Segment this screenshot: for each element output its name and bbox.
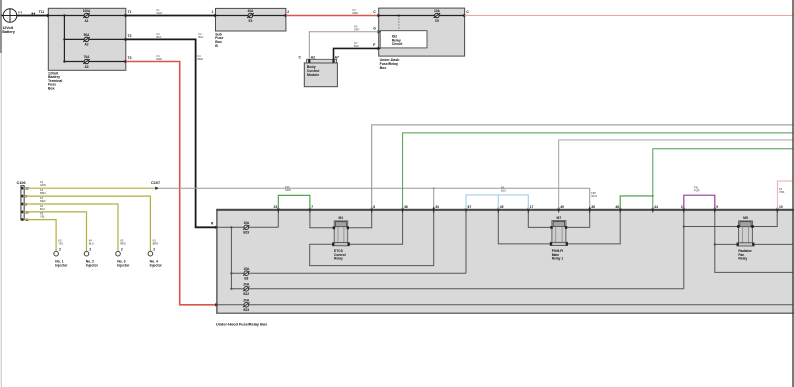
svg-text:Box: Box	[48, 87, 55, 91]
wire C106 pin9 to No.4 injector	[24, 188, 158, 251]
svg-text:15A: 15A	[243, 267, 250, 271]
wire terminal 33 to relay M1 switch	[310, 209, 434, 266]
svg-text:20A: 20A	[243, 282, 250, 286]
diagram left border	[0, 53, 2, 387]
wire row3 inside battery box	[64, 61, 125, 63]
wire B23 row across box	[216, 304, 793, 306]
node at terminal 33 drop	[433, 187, 435, 189]
terminal 2	[681, 205, 685, 212]
terminal 49	[557, 205, 564, 212]
svg-text:BLK: BLK	[199, 35, 204, 39]
wire gray terminal 8 to right edge	[372, 125, 793, 209]
svg-text:Injector: Injector	[55, 263, 68, 267]
wire row1 inside battery box	[48, 15, 126, 17]
Sub Fuse Box B	[215, 8, 286, 47]
svg-text:B23: B23	[243, 308, 249, 312]
terminal R under-hood left	[211, 222, 219, 229]
svg-text:70A: 70A	[84, 55, 91, 59]
svg-text:RED: RED	[120, 242, 126, 246]
svg-text:YEL: YEL	[58, 242, 63, 246]
wire relay M7 switch to terminal 46	[566, 209, 620, 244]
terminal 23	[274, 205, 280, 212]
svg-text:GRY: GRY	[354, 28, 360, 32]
under-hood box top edge	[216, 209, 794, 211]
wire relay M5 switch right out	[752, 243, 793, 245]
terminal red feed bottom left	[215, 303, 219, 306]
wire T2 down to under-hood box terminal R	[126, 32, 217, 227]
svg-text:BRN: BRN	[40, 191, 46, 195]
svg-text:G: G	[373, 27, 376, 31]
wire relay M7 coil to terminal 38	[566, 209, 590, 227]
svg-text:T3: T3	[128, 56, 132, 60]
wire C106 pin11 to No.1 injector	[24, 212, 64, 252]
node junction row1	[230, 226, 232, 228]
wire gray terminal 49 junction to right edge	[559, 140, 793, 209]
svg-text:F: F	[373, 43, 375, 47]
svg-text:WHT: WHT	[591, 194, 597, 198]
fuse B12 20A	[243, 282, 250, 296]
jumper blue terminals 67-45-17	[466, 185, 528, 209]
svg-text:30A: 30A	[247, 9, 254, 13]
svg-text:33: 33	[435, 205, 439, 209]
svg-text:Injector: Injector	[150, 263, 163, 267]
terminal 38	[588, 205, 595, 212]
svg-text:10: 10	[779, 205, 783, 209]
svg-text:M5: M5	[743, 216, 748, 220]
terminal 10	[776, 205, 783, 212]
svg-text:20A: 20A	[243, 298, 250, 302]
terminal 67	[465, 205, 472, 212]
wire relay M1 switch to terminal 36	[348, 209, 403, 244]
svg-text:45: 45	[500, 205, 504, 209]
svg-text:15A: 15A	[243, 221, 250, 225]
svg-text:YEL: YEL	[40, 215, 45, 219]
node battery box row1	[63, 14, 65, 16]
svg-text:E8: E8	[244, 276, 248, 280]
node junction rowE8	[230, 272, 232, 274]
svg-text:T1: T1	[128, 10, 132, 14]
terminal 9	[713, 205, 718, 212]
svg-text:23: 23	[274, 205, 278, 209]
terminal 1 sub fuse box left	[212, 10, 218, 17]
wire terminal 45 to relay M7 switch	[498, 209, 552, 244]
svg-text:Under-Hood Fuse/Relay Box: Under-Hood Fuse/Relay Box	[216, 322, 268, 326]
wire terminal 2 riser to relay M5 coil	[684, 226, 739, 228]
svg-text:PUR: PUR	[694, 188, 700, 192]
wire red sub fuse box to under-dash box	[286, 8, 379, 15]
No. 1 Injector	[54, 248, 68, 268]
svg-text:RED: RED	[157, 57, 163, 61]
terminal C under-dash left	[373, 10, 381, 17]
svg-text:100A: 100A	[83, 9, 91, 13]
svg-text:2: 2	[59, 248, 61, 252]
diagram right border	[792, 0, 794, 387]
terminal 8	[370, 205, 375, 212]
wire row2 inside battery box	[64, 38, 125, 40]
svg-text:Injector: Injector	[86, 263, 99, 267]
No. 4 Injector	[148, 248, 162, 268]
relay M5 Radiator Fan Relay	[737, 216, 755, 261]
relay M1 ETCS Control Relay	[332, 216, 349, 260]
svg-text:RED: RED	[353, 11, 359, 15]
svg-text:17: 17	[530, 205, 534, 209]
wire C106 pin10 to No.2 injector	[24, 204, 94, 252]
IG2 Relay Circuit box	[380, 31, 427, 48]
svg-text:2: 2	[287, 10, 289, 14]
svg-text:2: 2	[681, 205, 683, 209]
relay M7 PGM-FI Main Relay 1	[550, 216, 568, 260]
terminal 44	[651, 205, 658, 212]
wire R feed to fuse B19	[216, 226, 278, 228]
wire relay M1 coil to terminal 8	[348, 209, 372, 228]
svg-text:Relay: Relay	[738, 257, 747, 261]
svg-text:GRN: GRN	[40, 183, 46, 187]
terminal 46	[615, 205, 621, 212]
svg-text:36: 36	[404, 205, 408, 209]
battery 12Volt	[1, 9, 17, 34]
svg-text:A3: A3	[84, 65, 88, 69]
svg-text:BLK: BLK	[157, 35, 162, 39]
12Volt Battery Terminal Fuse Box	[48, 8, 126, 90]
svg-text:A1: A1	[84, 19, 88, 23]
wire BCM A7 to under-dash terminal F	[334, 41, 379, 59]
svg-text:C9: C9	[435, 19, 439, 23]
svg-text:A2: A2	[311, 56, 315, 60]
svg-text:67: 67	[468, 205, 472, 209]
wire junction vertical	[63, 16, 65, 62]
svg-text:(+): (+)	[18, 10, 22, 14]
wire pink terminal 10 to right edge	[777, 181, 793, 209]
wire T1 to Sub Fuse Box B	[126, 8, 216, 15]
wire gray C107 across to terminal 38	[158, 188, 598, 209]
wire fuse B19 up to terminal 23	[277, 209, 279, 227]
fuse E8 15A	[243, 267, 250, 281]
svg-text:Injector: Injector	[117, 263, 130, 267]
wire terminal 7 to relay M1 coil	[310, 209, 334, 228]
svg-text:2: 2	[153, 248, 155, 252]
svg-text:Box: Box	[380, 66, 387, 70]
fuse B23 20A	[243, 298, 250, 312]
svg-text:B19: B19	[243, 231, 249, 235]
terminal 2 sub fuse box right	[285, 10, 290, 17]
svg-text:M7: M7	[557, 216, 562, 220]
terminal T2	[125, 34, 132, 41]
svg-text:B12: B12	[243, 292, 249, 296]
fuse E3 30A	[247, 9, 254, 23]
terminal G under-dash left	[373, 27, 381, 34]
jumper green terminals 46-44	[620, 195, 654, 209]
wire internal junction vertical	[230, 227, 232, 288]
svg-text:38: 38	[591, 205, 595, 209]
svg-text:T2: T2	[128, 34, 132, 38]
svg-text:GRN: GRN	[285, 188, 291, 192]
svg-text:BLU: BLU	[40, 207, 45, 211]
wire BCM A2 to under-dash terminal G	[309, 25, 378, 60]
jumper purple terminals 2-9	[684, 185, 715, 209]
terminal 36	[401, 205, 408, 212]
svg-text:Relay: Relay	[334, 257, 343, 261]
terminal 45	[497, 205, 504, 212]
svg-text:Battery: Battery	[2, 30, 16, 34]
Under-Dash Fuse/Relay Box	[379, 8, 465, 70]
svg-text:BRN: BRN	[153, 242, 159, 246]
terminal T11 arrow	[47, 14, 51, 17]
fuse A2 50A	[83, 33, 90, 47]
node riser M5 coil	[683, 225, 685, 227]
wire inside under-dash box	[379, 15, 465, 17]
svg-text:M1: M1	[339, 216, 344, 220]
wire green terminal 36 to right edge	[403, 133, 793, 209]
fuse B19 15A	[243, 221, 250, 235]
wire E8 row to terminal 67	[231, 272, 466, 274]
wire relay M5 coil to terminal 10	[752, 209, 777, 227]
wire C106 pin12 to C107	[24, 180, 155, 188]
svg-text:A7: A7	[335, 56, 339, 60]
svg-text:1: 1	[212, 10, 214, 14]
svg-text:50A: 50A	[84, 33, 91, 37]
connector C106	[17, 181, 30, 222]
Under-Hood Fuse/Relay Box body	[216, 209, 794, 326]
terminal 33	[432, 205, 439, 212]
No. 2 Injector	[84, 248, 98, 268]
svg-text:RED: RED	[40, 199, 46, 203]
svg-text:PNK: PNK	[779, 190, 785, 194]
connector C107	[151, 181, 160, 190]
terminal T3	[125, 56, 132, 63]
jumper green terminals 23-7	[278, 185, 310, 209]
svg-text:A2: A2	[84, 43, 88, 47]
wire B12 row to relay M5 riser	[231, 288, 683, 290]
node battery box row2	[63, 38, 65, 40]
terminal 7	[309, 205, 314, 212]
wire terminal 9 down and out right	[715, 209, 793, 272]
svg-text:Circuit: Circuit	[392, 42, 404, 46]
wire riser terminal 2	[683, 209, 685, 289]
svg-text:2: 2	[89, 248, 91, 252]
svg-text:46: 46	[615, 205, 619, 209]
svg-text:2: 2	[121, 248, 123, 252]
svg-text:BLK: BLK	[354, 44, 359, 48]
fuse A3 70A	[83, 55, 90, 69]
node terminal 9 relay M5 switch	[714, 243, 716, 245]
wire drop to terminal 33	[433, 188, 435, 209]
wire battery to T11	[17, 10, 49, 16]
svg-text:Relay 1: Relay 1	[552, 257, 564, 261]
wire green terminal 44 to right edge	[653, 149, 793, 209]
svg-text:C106: C106	[17, 181, 26, 185]
fuse A1 100A	[83, 9, 91, 23]
wire red thin to right edge	[465, 15, 793, 17]
wire C106 pin8 to No.3 injector	[24, 196, 126, 252]
svg-text:49: 49	[560, 205, 564, 209]
svg-text:C107: C107	[151, 181, 160, 185]
svg-text:WHT: WHT	[157, 11, 163, 15]
svg-text:10A: 10A	[434, 9, 441, 13]
terminal F under-dash left	[373, 43, 381, 50]
terminal T1	[125, 10, 132, 17]
terminal 17	[527, 205, 534, 212]
svg-text:RED: RED	[198, 57, 204, 61]
Body Control Module	[299, 56, 340, 87]
svg-text:BLU: BLU	[89, 242, 94, 246]
svg-text:44: 44	[654, 205, 658, 209]
wire T3 red down to under-hood box bottom feed	[126, 54, 217, 305]
wire terminal 17 to relay M7 coil	[528, 209, 552, 227]
svg-text:8: 8	[373, 205, 375, 209]
fuse C9 10A	[434, 9, 441, 23]
svg-text:E3: E3	[248, 19, 252, 23]
svg-text:BLU: BLU	[501, 188, 506, 192]
dashed link IG2 circuit to fuse wire	[398, 15, 400, 31]
svg-text:Module: Module	[307, 73, 319, 77]
svg-text:T11: T11	[39, 10, 45, 14]
svg-text:9: 9	[716, 205, 718, 209]
No. 3 Injector	[116, 248, 130, 268]
terminal C under-dash right	[463, 10, 469, 17]
node junction rowB12	[230, 288, 232, 290]
wire relay M5 switch left leg	[715, 243, 739, 245]
svg-text:7: 7	[311, 205, 313, 209]
node battery box row3	[63, 60, 65, 62]
